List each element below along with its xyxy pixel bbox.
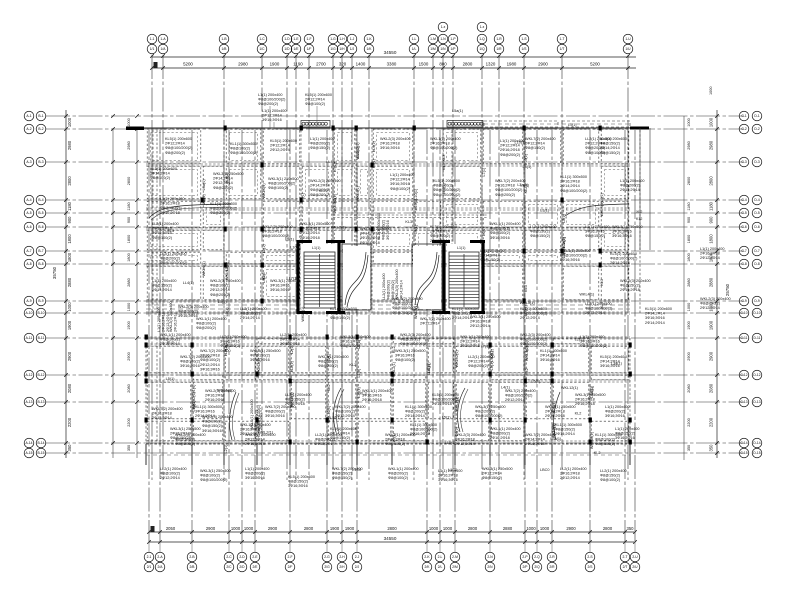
svg-text:350: 350 — [127, 445, 131, 451]
svg-text:2/L: 2/L — [438, 565, 443, 569]
svg-text:LL2(1) 200x400: LL2(1) 200x400 — [285, 393, 312, 397]
svg-text:WKL2(3) 200x400: WKL2(3) 200x400 — [620, 279, 651, 283]
svg-text:2Φ12;2Φ14: 2Φ12;2Φ14 — [210, 288, 230, 292]
svg-text:B-6: B-6 — [38, 225, 43, 229]
svg-text:2880: 2880 — [503, 526, 513, 531]
svg-text:3Φ16;3Φ16: 3Φ16;3Φ16 — [490, 236, 510, 240]
svg-text:WKL4(1): WKL4(1) — [262, 183, 266, 199]
svg-text:3Φ16;3Φ16: 3Φ16;3Φ16 — [270, 288, 290, 292]
svg-text:L1(1) 200x400: L1(1) 200x400 — [245, 467, 270, 471]
svg-text:B-11: B-11 — [38, 336, 45, 340]
svg-text:WKL4(1): WKL4(1) — [217, 389, 233, 393]
svg-text:L3a(1): L3a(1) — [202, 179, 206, 191]
svg-text:3Φ16;3Φ16: 3Φ16;3Φ16 — [645, 316, 665, 320]
svg-text:1000: 1000 — [67, 117, 72, 127]
svg-text:A-13: A-13 — [26, 400, 33, 404]
svg-text:L2(1): L2(1) — [562, 213, 566, 223]
svg-text:L5(1): L5(1) — [218, 300, 228, 304]
svg-text:L3(1): L3(1) — [522, 165, 532, 169]
svg-text:WKL2(3) 200x400: WKL2(3) 200x400 — [178, 305, 209, 309]
svg-text:Φ8@200(2): Φ8@200(2) — [310, 142, 331, 146]
svg-text:1000: 1000 — [687, 118, 691, 126]
svg-text:KL2: KL2 — [327, 384, 331, 391]
svg-text:D-14: D-14 — [753, 441, 760, 445]
svg-text:WKL4(1): WKL4(1) — [600, 201, 604, 217]
svg-text:1/S: 1/S — [522, 47, 528, 51]
svg-text:WKL1(1) 200x400: WKL1(1) 200x400 — [490, 427, 521, 431]
svg-text:1980: 1980 — [507, 62, 517, 67]
svg-text:2800: 2800 — [304, 526, 314, 531]
svg-text:2Φ14;2Φ14: 2Φ14;2Φ14 — [240, 316, 260, 320]
svg-text:350: 350 — [67, 444, 72, 452]
svg-text:L1(1) 200x400: L1(1) 200x400 — [700, 247, 725, 251]
svg-text:1/B: 1/B — [222, 47, 228, 51]
svg-text:C-12: C-12 — [740, 373, 747, 377]
svg-text:WKL12(1): WKL12(1) — [455, 350, 459, 368]
svg-text:1/K: 1/K — [367, 47, 373, 51]
svg-text:3Φ16;3Φ16: 3Φ16;3Φ16 — [460, 344, 480, 348]
svg-text:2980: 2980 — [687, 141, 691, 149]
svg-text:2Φ14;2Φ14: 2Φ14;2Φ14 — [645, 312, 665, 316]
svg-text:2Φ16;2Φ18: 2Φ16;2Φ18 — [560, 180, 580, 184]
svg-text:1800: 1800 — [67, 252, 72, 262]
svg-text:2/N: 2/N — [487, 565, 493, 569]
svg-text:2Φ12;2Φ14: 2Φ12;2Φ14 — [165, 142, 185, 146]
svg-text:L5(1): L5(1) — [327, 353, 331, 363]
svg-text:2Φ14;2Φ14: 2Φ14;2Φ14 — [600, 146, 620, 150]
svg-text:1320: 1320 — [486, 62, 496, 67]
svg-text:LL2(1): LL2(1) — [224, 345, 228, 357]
svg-text:Φ8@100/200(2): Φ8@100/200(2) — [433, 188, 461, 192]
svg-text:Φ8@100/200(2): Φ8@100/200(2) — [610, 257, 638, 261]
svg-text:Φ8@100(2): Φ8@100(2) — [330, 312, 351, 316]
svg-text:2200: 2200 — [687, 418, 691, 426]
svg-text:C-14: C-14 — [740, 441, 747, 445]
svg-text:WKL3(1) 250x500: WKL3(1) 250x500 — [268, 177, 299, 181]
svg-text:2Φ16;2Φ18: 2Φ16;2Φ18 — [360, 241, 380, 245]
svg-text:L3(1): L3(1) — [262, 273, 266, 283]
svg-text:KL5(1) 200x600: KL5(1) 200x600 — [610, 252, 637, 256]
svg-text:WKL2(3) 200x400: WKL2(3) 200x400 — [169, 301, 173, 332]
svg-text:Φ8@100(2): Φ8@100(2) — [330, 316, 351, 320]
svg-text:D-8: D-8 — [754, 262, 759, 266]
svg-text:KL1(1) 300x500: KL1(1) 300x500 — [595, 433, 622, 437]
svg-text:Φ8@100(2): Φ8@100(2) — [196, 322, 217, 326]
svg-text:2Φ16;2Φ18: 2Φ16;2Φ18 — [438, 474, 458, 478]
svg-text:L1(1) 200x400: L1(1) 200x400 — [157, 308, 161, 333]
svg-text:2200: 2200 — [709, 417, 714, 427]
svg-text:2900: 2900 — [206, 526, 216, 531]
svg-text:1800: 1800 — [127, 253, 131, 261]
svg-text:Φ8@100/200(2): Φ8@100/200(2) — [430, 146, 458, 150]
svg-text:L1(1) 200x400: L1(1) 200x400 — [160, 197, 185, 201]
svg-text:2Φ16;2Φ18: 2Φ16;2Φ18 — [362, 398, 382, 402]
svg-text:1-C: 1-C — [259, 37, 265, 41]
svg-text:2800: 2800 — [67, 176, 72, 186]
svg-text:WKL3(1) 250x500: WKL3(1) 250x500 — [470, 315, 501, 319]
svg-text:L1(1) 200x400: L1(1) 200x400 — [620, 179, 645, 183]
svg-text:WKL2(3) 200x400: WKL2(3) 200x400 — [700, 297, 731, 301]
svg-text:2Φ12;2Φ14: 2Φ12;2Φ14 — [300, 231, 320, 235]
svg-text:2Φ12;2Φ14: 2Φ12;2Φ14 — [213, 181, 233, 185]
svg-text:L7(1): L7(1) — [392, 433, 396, 443]
svg-text:WKL2(3) 200x400: WKL2(3) 200x400 — [400, 333, 431, 337]
svg-text:2880: 2880 — [687, 278, 691, 286]
svg-text:Φ8@100(2): Φ8@100(2) — [150, 176, 171, 180]
svg-text:Φ8@200(2): Φ8@200(2) — [475, 410, 496, 414]
svg-text:L2(1): L2(1) — [224, 444, 228, 454]
svg-text:KL2: KL2 — [575, 411, 582, 415]
svg-text:WKL1(1) 200x400: WKL1(1) 200x400 — [160, 333, 191, 337]
svg-text:Φ8@100/200(2): Φ8@100/200(2) — [200, 478, 228, 482]
svg-text:KL2: KL2 — [167, 340, 174, 344]
svg-text:Φ8@200(2): Φ8@200(2) — [213, 186, 234, 190]
svg-text:1180: 1180 — [67, 201, 72, 211]
svg-text:35750: 35750 — [52, 266, 57, 279]
svg-text:2Φ16;2Φ18: 2Φ16;2Φ18 — [500, 148, 520, 152]
svg-text:KL1(1) 300x500: KL1(1) 300x500 — [330, 307, 357, 311]
svg-text:Φ8@200(2): Φ8@200(2) — [490, 432, 511, 436]
svg-text:KL1(1) 300x500: KL1(1) 300x500 — [560, 175, 587, 179]
svg-text:2Φ12;2Φ14: 2Φ12;2Φ14 — [245, 438, 265, 442]
svg-text:1-M: 1-M — [430, 37, 436, 41]
svg-text:2Φ16;2Φ18: 2Φ16;2Φ18 — [700, 252, 720, 256]
svg-text:Φ8@150(2): Φ8@150(2) — [600, 474, 621, 478]
svg-text:2-R: 2-R — [549, 555, 555, 559]
svg-text:WKL3(1) 250x500: WKL3(1) 250x500 — [482, 467, 513, 471]
svg-text:2Φ12;2Φ14: 2Φ12;2Φ14 — [525, 142, 545, 146]
svg-text:L4(1): L4(1) — [482, 226, 486, 236]
svg-text:3Φ16;3Φ16: 3Φ16;3Φ16 — [245, 476, 265, 480]
svg-text:2Φ14;2Φ14: 2Φ14;2Φ14 — [560, 184, 580, 188]
svg-text:2-J: 2-J — [355, 555, 360, 559]
svg-text:2Φ14;2Φ14: 2Φ14;2Φ14 — [480, 254, 500, 258]
svg-text:1/R: 1/R — [496, 47, 502, 51]
svg-text:1000: 1000 — [540, 526, 550, 531]
svg-text:2Φ12;2Φ14: 2Φ12;2Φ14 — [560, 476, 580, 480]
svg-text:KL3: KL3 — [524, 285, 528, 292]
svg-text:D-12: D-12 — [753, 373, 760, 377]
svg-text:1-x: 1-x — [441, 25, 446, 29]
svg-text:KL1(1) 300x500: KL1(1) 300x500 — [377, 213, 381, 240]
svg-text:KL1(1) 300x500: KL1(1) 300x500 — [540, 349, 567, 353]
svg-text:A-15: A-15 — [26, 451, 33, 455]
svg-text:1900: 1900 — [709, 320, 714, 330]
svg-text:2800: 2800 — [127, 177, 131, 185]
svg-text:Φ8@100(2): Φ8@100(2) — [200, 474, 221, 478]
svg-text:2Φ16;2Φ18: 2Φ16;2Φ18 — [300, 236, 320, 240]
svg-text:1-H: 1-H — [339, 37, 345, 41]
svg-text:2/1: 2/1 — [147, 565, 152, 569]
svg-text:LL4(1): LL4(1) — [326, 160, 338, 164]
svg-text:350: 350 — [627, 526, 635, 531]
svg-text:Φ8@100(2): Φ8@100(2) — [595, 438, 616, 442]
svg-text:L1(1) 200x400: L1(1) 200x400 — [438, 469, 463, 473]
svg-text:A-11: A-11 — [26, 336, 33, 340]
svg-text:C-13: C-13 — [740, 400, 747, 404]
svg-text:1900: 1900 — [330, 526, 340, 531]
svg-text:WKL2(3) 200x400: WKL2(3) 200x400 — [310, 179, 341, 183]
svg-text:Φ8@150(2): Φ8@150(2) — [482, 476, 503, 480]
svg-text:L1(1) 200x400: L1(1) 200x400 — [615, 427, 640, 431]
svg-text:LL4(1): LL4(1) — [524, 304, 528, 316]
svg-text:LL2(1) 200x400: LL2(1) 200x400 — [160, 252, 187, 256]
svg-text:KL5(1) 200x600: KL5(1) 200x600 — [305, 93, 332, 97]
svg-text:2Φ12;2Φ14: 2Φ12;2Φ14 — [620, 188, 640, 192]
svg-text:2080: 2080 — [67, 383, 72, 393]
svg-text:KL2: KL2 — [349, 363, 356, 367]
svg-text:Φ8@200(2): Φ8@200(2) — [318, 364, 339, 368]
svg-text:L4(1): L4(1) — [600, 192, 604, 202]
svg-text:C-7: C-7 — [741, 249, 746, 253]
svg-text:C-2: C-2 — [741, 127, 746, 131]
svg-text:1/C: 1/C — [259, 47, 265, 51]
svg-text:1800: 1800 — [127, 235, 131, 243]
svg-text:1000: 1000 — [526, 526, 536, 531]
svg-text:WKL2(1): WKL2(1) — [301, 306, 305, 322]
svg-text:2-B: 2-B — [189, 555, 195, 559]
svg-text:2Φ12;2Φ14: 2Φ12;2Φ14 — [520, 316, 540, 320]
svg-text:3Φ16;3Φ16: 3Φ16;3Φ16 — [395, 354, 415, 358]
svg-text:L5(1): L5(1) — [166, 377, 176, 381]
svg-text:3Φ16;3Φ16: 3Φ16;3Φ16 — [605, 414, 625, 418]
svg-text:2880: 2880 — [127, 278, 131, 286]
svg-text:2Φ14;2Φ14: 2Φ14;2Φ14 — [540, 354, 560, 358]
svg-text:L1(1) 200x400: L1(1) 200x400 — [585, 225, 610, 229]
svg-text:1/E: 1/E — [294, 47, 300, 51]
svg-text:2080: 2080 — [687, 384, 691, 392]
svg-text:L1(1) 200x400: L1(1) 200x400 — [480, 249, 505, 253]
svg-text:2Φ16;2Φ18: 2Φ16;2Φ18 — [262, 230, 282, 234]
svg-text:2Φ16;2Φ18: 2Φ16;2Φ18 — [575, 402, 595, 406]
svg-text:LBC0: LBC0 — [540, 468, 550, 472]
svg-text:34550: 34550 — [384, 536, 397, 541]
svg-text:WKL1(1) 200x400: WKL1(1) 200x400 — [385, 433, 416, 437]
svg-text:L3a(1): L3a(1) — [590, 386, 594, 398]
svg-text:1-Q: 1-Q — [479, 37, 485, 41]
svg-text:2080: 2080 — [709, 383, 714, 393]
svg-text:2Φ16;2Φ18: 2Φ16;2Φ18 — [620, 288, 640, 292]
svg-text:L3(1): L3(1) — [427, 425, 431, 435]
svg-text:2Φ16;2Φ18: 2Φ16;2Φ18 — [545, 414, 565, 418]
svg-text:B-7: B-7 — [38, 249, 43, 253]
svg-text:2Φ12;2Φ14: 2Φ12;2Φ14 — [470, 324, 490, 328]
svg-text:KL2: KL2 — [524, 187, 528, 194]
svg-text:C-3: C-3 — [741, 160, 746, 164]
svg-text:A-14: A-14 — [26, 441, 33, 445]
svg-text:A-12: A-12 — [26, 373, 33, 377]
svg-text:KL5(1) 200x600: KL5(1) 200x600 — [288, 475, 315, 479]
svg-text:Φ8@200(2): Φ8@200(2) — [315, 438, 336, 442]
svg-text:B-4: B-4 — [38, 198, 43, 202]
svg-text:L1(1): L1(1) — [568, 123, 576, 127]
svg-text:2Φ14;2Φ14: 2Φ14;2Φ14 — [610, 261, 630, 265]
svg-text:WKL12(1): WKL12(1) — [192, 391, 196, 409]
svg-text:D-4: D-4 — [754, 198, 759, 202]
svg-text:2900: 2900 — [709, 351, 714, 361]
svg-text:L4(1): L4(1) — [501, 385, 511, 389]
svg-text:1000: 1000 — [244, 526, 254, 531]
svg-text:2Φ12;2Φ14: 2Φ12;2Φ14 — [460, 340, 480, 344]
svg-text:Φ8@100/200(2): Φ8@100/200(2) — [505, 394, 533, 398]
svg-text:L3a(1): L3a(1) — [550, 437, 562, 441]
svg-text:L1(1): L1(1) — [457, 246, 465, 250]
svg-text:Φ8@150(2): Φ8@150(2) — [382, 219, 386, 240]
svg-text:D-5: D-5 — [754, 211, 759, 215]
svg-text:3Φ16;3Φ16: 3Φ16;3Φ16 — [540, 358, 560, 362]
svg-text:1900: 1900 — [345, 526, 355, 531]
svg-text:2800: 2800 — [463, 62, 473, 67]
svg-text:Φ8@150(2): Φ8@150(2) — [595, 442, 616, 446]
svg-text:Φ8@100(2): Φ8@100(2) — [430, 234, 451, 238]
svg-text:L2(1): L2(1) — [333, 193, 337, 203]
svg-text:LL2(1) 200x400: LL2(1) 200x400 — [240, 307, 267, 311]
svg-text:WKL7(2) 200x400: WKL7(2) 200x400 — [335, 405, 366, 409]
svg-text:Φ8@100(2): Φ8@100(2) — [305, 102, 326, 106]
svg-text:1400: 1400 — [356, 62, 366, 67]
svg-text:Φ8@100(2): Φ8@100(2) — [268, 186, 289, 190]
svg-text:2200: 2200 — [127, 418, 131, 426]
svg-text:Φ8@100(2): Φ8@100(2) — [210, 284, 231, 288]
svg-text:L7(1): L7(1) — [482, 167, 486, 177]
svg-text:2Φ16;2Φ18: 2Φ16;2Φ18 — [160, 202, 180, 206]
svg-text:2Φ16;2Φ18: 2Φ16;2Φ18 — [430, 142, 450, 146]
svg-text:1/T: 1/T — [560, 47, 565, 51]
svg-text:WKL7(2) 200x400: WKL7(2) 200x400 — [420, 317, 451, 321]
svg-text:WKL7(2) 200x400: WKL7(2) 200x400 — [525, 137, 556, 141]
svg-text:1-S: 1-S — [521, 37, 527, 41]
svg-text:1/F: 1/F — [307, 47, 312, 51]
svg-text:2800: 2800 — [468, 526, 478, 531]
svg-text:Φ8@150(2): Φ8@150(2) — [152, 284, 173, 288]
svg-text:WKL1(1) 200x400: WKL1(1) 200x400 — [430, 137, 461, 141]
svg-text:3Φ16;3Φ16: 3Φ16;3Φ16 — [585, 230, 605, 234]
svg-text:L10(1): L10(1) — [257, 404, 261, 416]
svg-text:Φ8@200(2): Φ8@200(2) — [178, 310, 199, 314]
svg-text:1-E: 1-E — [293, 37, 299, 41]
svg-text:2-E: 2-E — [252, 555, 258, 559]
svg-text:L10(1): L10(1) — [414, 188, 418, 200]
svg-text:3Φ16;3Φ16: 3Φ16;3Φ16 — [195, 410, 215, 414]
svg-text:1-K: 1-K — [366, 37, 372, 41]
svg-text:Φ8@150(2): Φ8@150(2) — [530, 230, 551, 234]
svg-text:KL1(1) 300x500: KL1(1) 300x500 — [195, 405, 222, 409]
svg-text:3Φ16;3Φ16: 3Φ16;3Φ16 — [180, 364, 200, 368]
svg-text:WKL3(1) 250x500: WKL3(1) 250x500 — [170, 427, 201, 431]
svg-text:2Φ14;2Φ14: 2Φ14;2Φ14 — [400, 280, 404, 300]
svg-text:KL3: KL3 — [405, 220, 412, 224]
svg-text:2Φ12;2Φ14: 2Φ12;2Φ14 — [482, 472, 502, 476]
svg-text:L1(1): L1(1) — [357, 368, 361, 378]
svg-text:WKL7(2) 200x400: WKL7(2) 200x400 — [332, 467, 363, 471]
svg-text:Φ8@200(2): Φ8@200(2) — [495, 193, 516, 197]
svg-text:L2(1): L2(1) — [575, 338, 585, 342]
svg-text:Φ8@200(2): Φ8@200(2) — [310, 193, 331, 197]
svg-text:L10(1): L10(1) — [414, 198, 418, 210]
svg-text:L3(1): L3(1) — [414, 224, 418, 234]
svg-text:2/S: 2/S — [588, 565, 594, 569]
svg-text:2Φ12;2Φ14: 2Φ12;2Φ14 — [262, 114, 282, 118]
svg-text:LL2(1) 200x400: LL2(1) 200x400 — [600, 469, 627, 473]
svg-text:WKL2(3) 200x400: WKL2(3) 200x400 — [262, 225, 293, 229]
svg-text:1000: 1000 — [709, 87, 713, 95]
svg-text:Φ8@200(2): Φ8@200(2) — [165, 151, 186, 155]
svg-text:2-U: 2-U — [632, 555, 638, 559]
svg-text:KL1(1) 300x500: KL1(1) 300x500 — [452, 307, 479, 311]
svg-text:KL2: KL2 — [525, 368, 529, 375]
svg-text:WKL3(1) 250x500: WKL3(1) 250x500 — [475, 405, 506, 409]
svg-text:900: 900 — [67, 216, 72, 224]
svg-text:2Φ16;2Φ18: 2Φ16;2Φ18 — [525, 442, 545, 446]
svg-text:Φ8@150(2): Φ8@150(2) — [585, 234, 606, 238]
svg-text:3Φ16;3Φ16: 3Φ16;3Φ16 — [390, 182, 410, 186]
svg-text:Φ8@150(2): Φ8@150(2) — [250, 354, 271, 358]
svg-text:2Φ12;2Φ14: 2Φ12;2Φ14 — [455, 442, 475, 446]
svg-text:2-1: 2-1 — [147, 555, 152, 559]
svg-text:2-G: 2-G — [324, 555, 330, 559]
svg-text:Φ8@150(2): Φ8@150(2) — [480, 258, 501, 262]
svg-text:WKL5(1): WKL5(1) — [520, 301, 536, 305]
svg-text:1800: 1800 — [709, 234, 714, 244]
svg-text:KL3: KL3 — [360, 392, 367, 396]
svg-text:2Φ12;2Φ14: 2Φ12;2Φ14 — [200, 363, 220, 367]
svg-text:XL2: XL2 — [636, 210, 642, 214]
svg-text:WKL4(1): WKL4(1) — [579, 292, 595, 296]
svg-text:A-10: A-10 — [26, 311, 33, 315]
svg-text:WKL3(1) 250x500: WKL3(1) 250x500 — [250, 349, 281, 353]
svg-text:2-T: 2-T — [623, 555, 628, 559]
svg-text:1/G: 1/G — [330, 47, 336, 51]
svg-text:Φ8@100(2): Φ8@100(2) — [490, 231, 511, 235]
svg-text:L3a(1): L3a(1) — [611, 361, 623, 365]
svg-text:Φ8@100/200(2): Φ8@100/200(2) — [433, 193, 461, 197]
svg-text:1000: 1000 — [127, 303, 131, 311]
svg-text:KL1(1) 300x500: KL1(1) 300x500 — [230, 142, 257, 146]
svg-text:L5(1): L5(1) — [442, 415, 452, 419]
svg-text:A-8: A-8 — [26, 262, 31, 266]
svg-text:2Φ16;2Φ18: 2Φ16;2Φ18 — [430, 239, 450, 243]
svg-text:Φ8@200(2): Φ8@200(2) — [468, 364, 489, 368]
svg-text:2/H: 2/H — [339, 565, 345, 569]
svg-text:1900: 1900 — [67, 320, 72, 330]
svg-text:LL4(1): LL4(1) — [442, 182, 446, 194]
svg-text:1/Q: 1/Q — [479, 47, 485, 51]
svg-text:2/C: 2/C — [226, 565, 232, 569]
svg-text:900: 900 — [687, 217, 691, 223]
svg-text:Φ8@150(2): Φ8@150(2) — [288, 480, 309, 484]
svg-text:A-4: A-4 — [26, 198, 31, 202]
svg-text:L10(1): L10(1) — [445, 441, 457, 445]
svg-text:1/A: 1/A — [161, 47, 167, 51]
svg-text:Φ8@100/200(2): Φ8@100/200(2) — [160, 261, 188, 265]
svg-text:WKL3(1) 250x500: WKL3(1) 250x500 — [395, 349, 426, 353]
svg-text:WKL3(1) 250x500: WKL3(1) 250x500 — [200, 469, 231, 473]
svg-text:WKL2(3) 200x400: WKL2(3) 200x400 — [175, 433, 206, 437]
svg-text:D-7: D-7 — [754, 249, 759, 253]
svg-text:C-4: C-4 — [741, 198, 746, 202]
svg-text:KL5(1) 200x600: KL5(1) 200x600 — [432, 393, 459, 397]
svg-text:Φ8@200(2): Φ8@200(2) — [605, 410, 626, 414]
svg-text:2Φ16;2Φ18: 2Φ16;2Φ18 — [380, 142, 400, 146]
svg-text:Φ8@150(2): Φ8@150(2) — [310, 146, 331, 150]
svg-text:2Φ16;2Φ18: 2Φ16;2Φ18 — [495, 184, 515, 188]
svg-text:2200: 2200 — [67, 417, 72, 427]
svg-text:1190: 1190 — [293, 62, 303, 67]
svg-text:KL5(1) 200x600: KL5(1) 200x600 — [330, 427, 357, 431]
svg-text:L10(1): L10(1) — [515, 140, 527, 144]
svg-text:Φ8@200(2): Φ8@200(2) — [387, 279, 391, 300]
svg-text:1/L: 1/L — [412, 47, 417, 51]
